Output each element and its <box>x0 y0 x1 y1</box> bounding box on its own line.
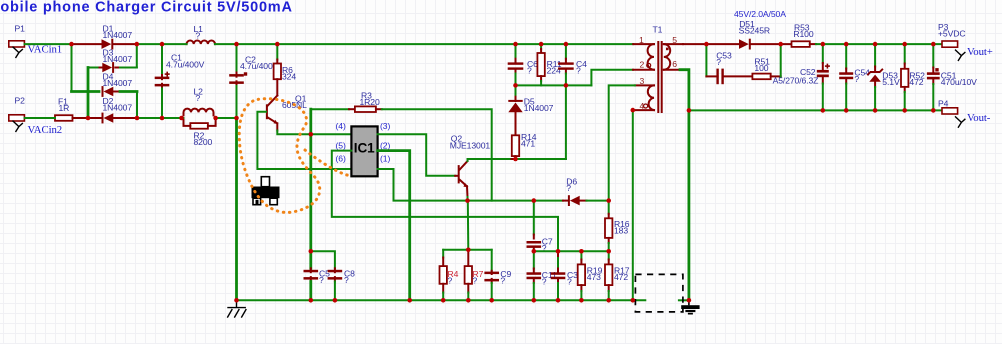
connector P2 <box>9 115 25 121</box>
plug icon P4 <box>955 116 965 127</box>
IC U1 body <box>351 126 377 176</box>
diode D6 <box>563 200 568 202</box>
capacitor C52 A5/270/6.3Z <box>822 44 824 63</box>
svg-text:224: 224 <box>547 65 561 75</box>
svg-text:?: ? <box>448 275 453 285</box>
wire node A down <box>71 44 73 91</box>
T1 winding 3-4 <box>648 85 654 110</box>
svg-text:VACin2: VACin2 <box>28 124 63 136</box>
T1 core <box>657 42 659 112</box>
svg-text:472: 472 <box>614 272 628 282</box>
resistor R14 471 <box>512 135 519 156</box>
svg-text:324: 324 <box>282 71 296 81</box>
wire P1 to node A <box>25 43 72 45</box>
resistor R16 183 <box>608 201 610 214</box>
wire Q2 emitter down (red) <box>466 186 469 197</box>
capacitor C11 <box>533 251 535 268</box>
diode D3 1N4007 <box>102 62 114 73</box>
inductor L2 <box>184 109 214 116</box>
svg-text:?: ? <box>319 275 324 285</box>
svg-text:T1: T1 <box>653 24 663 34</box>
svg-text:471: 471 <box>521 138 535 148</box>
capacitor C7 <box>533 201 535 235</box>
wire v1 top to R3 <box>311 108 349 110</box>
svg-text:100: 100 <box>754 63 768 73</box>
wire D3 cathode (red) <box>115 67 120 69</box>
wire IC1 pin2 vertical <box>378 151 410 301</box>
wire row 251 <box>534 250 609 252</box>
svg-text:?: ? <box>542 276 547 286</box>
wire IC1 pin5 chain <box>332 151 558 252</box>
svg-text:?: ? <box>567 276 572 286</box>
wire C2 vert to bottom rail <box>235 118 238 300</box>
svg-text:IC1: IC1 <box>354 140 375 155</box>
svg-text:(6): (6) <box>336 154 346 164</box>
wire v1 branch to C8 <box>311 251 335 268</box>
svg-text:?: ? <box>500 275 505 285</box>
svg-text:470u/10V: 470u/10V <box>941 77 977 87</box>
svg-text:A5/270/6.3Z: A5/270/6.3Z <box>773 75 819 85</box>
wire P2 to F1 <box>25 117 55 119</box>
svg-text:?: ? <box>576 65 581 75</box>
diode D5 1N4007 <box>515 85 517 96</box>
wire D3 anode stub (red) <box>98 67 103 69</box>
svg-text:SS245R: SS245R <box>739 26 770 36</box>
T1 secondary winding 5-6 <box>664 44 670 70</box>
wire R4/R7/C9 top row <box>443 249 492 251</box>
transistor SOT part (annotation) <box>252 177 280 205</box>
inductor L1 <box>187 41 215 45</box>
wire T1 pin4 vertical <box>632 110 634 300</box>
svg-text:VACin1: VACin1 <box>28 44 63 56</box>
transformer T1 <box>633 24 683 112</box>
svg-text:(3): (3) <box>380 121 390 131</box>
wire node B vert up <box>136 44 138 67</box>
svg-text:1N4007: 1N4007 <box>103 78 133 88</box>
wire Q1 emitter to IC1 pin4 <box>277 131 351 135</box>
wire R3 to Q2 collector node <box>382 109 492 200</box>
svg-text:2: 2 <box>640 60 645 70</box>
top output rail <box>816 43 942 45</box>
svg-text:?: ? <box>854 74 859 84</box>
capacitor C4 <box>565 44 567 59</box>
wire Q1 base to IC1 pin6 <box>257 112 351 169</box>
wire IC1 pin1 to Q2 emitter row <box>378 169 563 201</box>
resistor R19 473 <box>580 251 582 259</box>
wire IC1 pin3 to Q2 base <box>378 134 456 176</box>
wire top rail mid <box>137 43 187 45</box>
svg-text:?: ? <box>344 275 349 285</box>
resistor R6 324 <box>276 44 278 59</box>
wire vertical bus v1 <box>309 109 312 268</box>
capacitor C2 4.7u/400V <box>236 44 238 72</box>
connector P4 <box>942 108 958 114</box>
transistor Q2 MJE13001 <box>450 133 491 187</box>
wire node C to C1 bottom <box>137 117 182 119</box>
wire D5/R14 node to C4 chain <box>516 158 566 160</box>
plug icon P2 <box>13 121 23 132</box>
diode D2 1N4007 <box>102 113 114 124</box>
svg-text:Mobile phone Charger Circuit 5: Mobile phone Charger Circuit 5V/500mA <box>0 0 293 16</box>
wire C6/R11/C4 bottom row <box>516 84 592 86</box>
svg-text:(4): (4) <box>336 121 346 131</box>
svg-text:?: ? <box>566 183 571 193</box>
svg-text:P2: P2 <box>15 96 26 106</box>
wire Q2 emitter node down to R4/R7 row <box>467 201 470 250</box>
resistor R52 472 <box>904 44 906 63</box>
svg-text:?: ? <box>196 93 201 103</box>
wire node A to D1 (red) <box>72 43 102 45</box>
svg-text:1N4007: 1N4007 <box>103 54 133 64</box>
connector P1 <box>9 41 25 47</box>
wire T1 pin5 to output (red) <box>683 43 706 45</box>
wire T1 pin3 to R16 bus <box>609 85 635 200</box>
wire D4 anode (red) <box>113 91 120 93</box>
annotation orange tail <box>305 150 352 176</box>
bottom rail <box>237 299 646 301</box>
T1 primary winding 1-2 <box>648 44 654 70</box>
plug icon P1 <box>13 47 23 58</box>
svg-text:?: ? <box>716 57 721 67</box>
capacitor C54 <box>845 44 847 68</box>
svg-text:Vout+: Vout+ <box>967 46 993 58</box>
dashed jumper box <box>635 274 683 312</box>
svg-text:?: ? <box>527 65 532 75</box>
svg-text:1R20: 1R20 <box>360 97 380 107</box>
capacitor C9 <box>491 250 493 271</box>
svg-text:4.7u/400V: 4.7u/400V <box>166 59 205 69</box>
svg-text:6: 6 <box>672 59 677 69</box>
svg-text:R100: R100 <box>793 29 813 39</box>
svg-text:(2): (2) <box>380 140 390 150</box>
svg-text:5.1V: 5.1V <box>882 77 900 87</box>
wire Q2 collector row to D5/R14 node <box>467 159 469 161</box>
capacitor C6 <box>515 44 517 59</box>
svg-text:?: ? <box>473 275 478 285</box>
capacitor C8 <box>334 268 336 272</box>
resistor R2 8200 <box>190 123 208 129</box>
svg-text:MJE13001: MJE13001 <box>450 140 491 150</box>
capacitor C53 <box>716 69 723 85</box>
resistor R3 1R20 <box>349 108 355 110</box>
svg-text:?: ? <box>196 30 201 40</box>
wire row to T1 pin2 <box>591 70 633 86</box>
plug icon P3 <box>955 50 965 61</box>
svg-text:1R: 1R <box>59 103 70 113</box>
svg-text:P4: P4 <box>938 98 949 108</box>
capacitor C3 <box>557 251 559 258</box>
capacitor C5 <box>310 268 312 272</box>
resistor R4 <box>442 250 444 258</box>
svg-text:P1: P1 <box>15 24 26 34</box>
svg-text:Vout-: Vout- <box>967 112 991 124</box>
wire D1 cathode to node B (red) <box>113 43 137 45</box>
ground (chassis) <box>227 300 246 317</box>
diode D51 SS245R <box>739 39 751 50</box>
resistor R11 224 <box>540 44 542 49</box>
wire D2 anode to node C (red) <box>113 117 137 119</box>
snubber loop down <box>705 44 707 76</box>
transistor Q1 605NL <box>266 93 307 124</box>
svg-text:1N4007: 1N4007 <box>103 30 133 40</box>
wire node A row to D4 <box>72 90 100 93</box>
wire vert x88 D3 to F1 row <box>87 68 90 119</box>
capacitor C51 470u/10V <box>932 44 934 67</box>
wire L2 left node <box>182 117 184 119</box>
resistor R17 472 <box>608 251 610 259</box>
wire vert x137 down to row 118 <box>136 92 138 119</box>
wire D3 cathode to node B <box>120 67 137 69</box>
earth ground <box>681 300 699 314</box>
svg-text:183: 183 <box>614 225 628 235</box>
resistor R53 R100 <box>792 41 810 47</box>
zener D53 5.1V <box>874 44 876 66</box>
svg-text:+5VDC: +5VDC <box>938 29 965 39</box>
capacitor C1 4.7u/400V <box>161 44 163 75</box>
bottom rail stub at earth <box>679 299 689 301</box>
wire Q1 emitter down (red) <box>276 123 278 130</box>
svg-text:8200: 8200 <box>194 137 213 147</box>
diode D1 1N4007 <box>102 39 114 50</box>
svg-text:(5): (5) <box>336 140 346 150</box>
svg-text:1N4007: 1N4007 <box>103 103 133 113</box>
wire T1 pin6 vertical <box>680 70 689 301</box>
svg-text:45V/2.0A/50A: 45V/2.0A/50A <box>734 9 786 19</box>
fuse F1 <box>55 115 73 121</box>
wire R6 to Q1 collector (red) <box>276 79 278 95</box>
svg-text:(1): (1) <box>380 154 390 164</box>
annotation orange loop <box>239 99 319 213</box>
wire L2 right node to C2 vert <box>216 117 237 119</box>
svg-text:473: 473 <box>587 272 601 282</box>
wire F1 to D2 (red) <box>73 117 102 119</box>
svg-text:1N4007: 1N4007 <box>524 103 554 113</box>
resistor R7 <box>467 250 469 266</box>
svg-text:472: 472 <box>909 77 923 87</box>
bottom output rail <box>689 109 942 111</box>
connector P3 <box>942 41 958 47</box>
diode D4 1N4007 <box>102 86 114 97</box>
resistor R51 100 <box>724 75 753 77</box>
wire D4 anode to vert x137 <box>120 90 137 93</box>
wire D3 anode to vert <box>88 67 98 69</box>
